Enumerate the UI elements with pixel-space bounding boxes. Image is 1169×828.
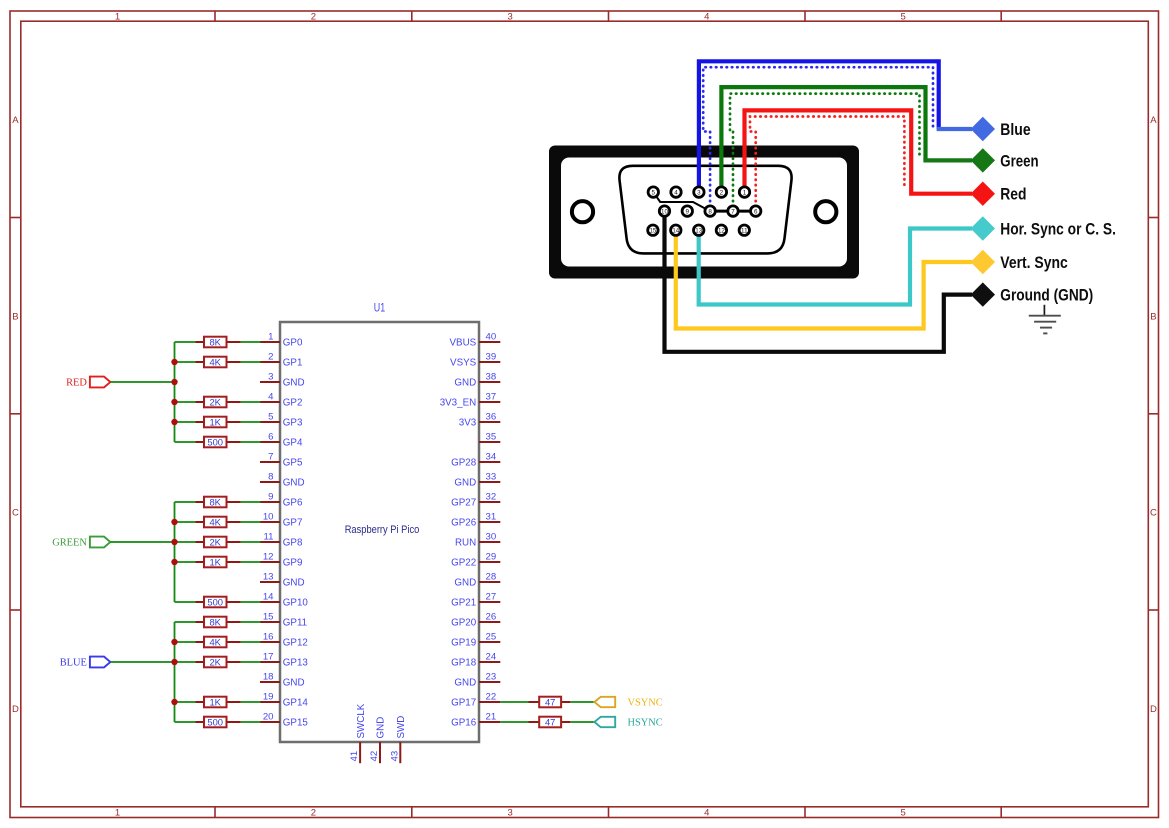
wire resistor to U1	[241, 601, 261, 603]
svg-text:GP26: GP26	[451, 518, 477, 529]
svg-text:8: 8	[268, 472, 273, 483]
svg-text:A: A	[12, 115, 19, 126]
resistor 500 RED	[196, 436, 241, 447]
svg-text:GP20: GP20	[451, 618, 477, 629]
VGA pin 7	[728, 206, 738, 216]
U1 pin 27 (GP21)	[451, 592, 500, 609]
svg-text:500: 500	[207, 596, 223, 607]
resistor 8K BLUE	[196, 616, 241, 627]
VGA pin 2	[716, 187, 726, 197]
svg-text:5: 5	[652, 189, 656, 196]
wire resistor to U1	[241, 721, 261, 723]
VGA pin 11	[739, 225, 749, 235]
resistor 47 (VSYNC)	[529, 696, 571, 707]
Green flag	[971, 148, 1039, 172]
VGA pin 12	[716, 225, 726, 235]
U1 pin 22 (GP17)	[451, 692, 500, 709]
svg-text:13: 13	[263, 572, 274, 583]
svg-text:GP5: GP5	[283, 458, 303, 469]
svg-text:4K: 4K	[209, 516, 221, 527]
svg-text:14: 14	[263, 592, 274, 603]
svg-text:GP6: GP6	[283, 498, 303, 509]
svg-text:2: 2	[720, 189, 724, 196]
wire bus to resistor	[175, 661, 196, 663]
svg-text:C: C	[1150, 508, 1157, 519]
svg-text:2: 2	[311, 807, 316, 818]
wire GREEN bus	[174, 502, 176, 602]
svg-text:13: 13	[695, 227, 702, 234]
frame row letters right	[1150, 115, 1157, 715]
svg-text:GND: GND	[376, 717, 387, 739]
svg-text:10: 10	[263, 512, 274, 523]
svg-text:500: 500	[207, 436, 223, 447]
junction dot	[171, 559, 177, 565]
svg-text:4K: 4K	[209, 636, 221, 647]
svg-text:2: 2	[268, 352, 273, 363]
svg-text:GP7: GP7	[283, 518, 303, 529]
wire bus to resistor	[175, 341, 196, 343]
junction dot	[171, 699, 177, 705]
svg-text:HSYNC: HSYNC	[628, 718, 663, 729]
wire Blue (VGA pin 3 to Blue flag)	[699, 61, 939, 192]
svg-text:19: 19	[263, 692, 274, 703]
VGA pin 9	[682, 206, 692, 216]
ground link wire pins 5-8-7-6	[653, 192, 755, 211]
resistor 8K RED	[196, 336, 241, 347]
earth ground symbol	[1029, 305, 1061, 334]
svg-text:26: 26	[486, 612, 497, 623]
wire 47 resistor to port VSYNC	[570, 701, 594, 703]
svg-text:RED: RED	[66, 378, 87, 389]
wire resistor to U1	[241, 521, 261, 523]
Ground flag	[971, 282, 1094, 306]
svg-text:Vert. Sync: Vert. Sync	[1000, 253, 1068, 272]
svg-text:9: 9	[268, 492, 273, 503]
port VSYNC	[594, 697, 662, 709]
wire resistor to U1	[241, 501, 261, 503]
frame column numbers bottom	[115, 807, 906, 818]
svg-text:22: 22	[486, 692, 497, 703]
U1 pin 4 (GP2)	[260, 392, 302, 409]
svg-text:1K: 1K	[209, 416, 221, 427]
svg-text:5: 5	[900, 807, 905, 818]
resistor 1K RED	[196, 416, 241, 427]
svg-text:33: 33	[486, 472, 497, 483]
svg-text:8K: 8K	[209, 336, 221, 347]
VGA pin 3	[694, 187, 704, 197]
resistor 500 BLUE	[196, 716, 241, 727]
svg-text:8K: 8K	[209, 616, 221, 627]
U1 pin 34 (GP28)	[451, 452, 500, 469]
wire bus to resistor	[175, 361, 196, 363]
svg-text:14: 14	[672, 227, 679, 234]
svg-text:18: 18	[263, 672, 274, 683]
svg-text:3: 3	[508, 12, 513, 23]
svg-text:GND: GND	[454, 678, 476, 689]
U1 pin 38 (GND)	[454, 372, 500, 389]
svg-text:1: 1	[115, 807, 120, 818]
U1 pin 11 (GP8)	[260, 532, 303, 549]
resistor 2K BLUE	[196, 656, 241, 667]
VGA pin 5	[648, 187, 658, 197]
svg-text:36: 36	[486, 412, 497, 423]
port GREEN	[52, 537, 110, 549]
svg-text:GP9: GP9	[283, 558, 303, 569]
VGA pin 6	[751, 206, 761, 216]
U1 pin 37 (3V3_EN)	[440, 392, 501, 409]
resistor 500 GREEN	[196, 596, 241, 607]
svg-text:GP2: GP2	[283, 398, 303, 409]
U1 pin 26 (GP20)	[451, 612, 500, 629]
resistor 1K BLUE	[196, 696, 241, 707]
U1 pin 28 (GND)	[454, 572, 500, 589]
junction dot	[171, 379, 177, 385]
svg-text:34: 34	[486, 452, 497, 463]
wire port GREEN to bus	[110, 541, 174, 543]
svg-text:35: 35	[486, 432, 497, 443]
U1 pin 23 (GND)	[454, 672, 500, 689]
dotted wire Green return (VGA pin 7)	[730, 94, 920, 207]
wire bus to resistor	[175, 441, 196, 443]
junction dot	[171, 419, 177, 425]
U1 pin 41 (SWCLK)	[349, 703, 367, 763]
VGA pin 13	[694, 225, 704, 235]
wire resistor to U1	[241, 621, 261, 623]
wire resistor to U1	[241, 641, 261, 643]
U1 pin 8 (GND)	[260, 472, 305, 489]
resistor 1K GREEN	[196, 556, 241, 567]
wire resistor to U1	[241, 541, 261, 543]
wire bus to resistor	[175, 501, 196, 503]
U1 pin 24 (GP18)	[451, 652, 500, 669]
svg-text:Hor. Sync or C. S.: Hor. Sync or C. S.	[1000, 219, 1116, 238]
svg-text:B: B	[12, 311, 18, 322]
svg-text:47: 47	[545, 696, 555, 707]
resistor 2K GREEN	[196, 536, 241, 547]
svg-text:3: 3	[268, 372, 273, 383]
wire Vert Sync (VGA pin 14 to flag)	[676, 230, 972, 328]
svg-text:4: 4	[674, 189, 678, 196]
svg-text:BLUE: BLUE	[60, 658, 87, 669]
U1 pin 6 (GP4)	[260, 432, 303, 449]
svg-text:1K: 1K	[209, 556, 221, 567]
svg-text:15: 15	[649, 227, 656, 234]
wire bus to resistor	[175, 401, 196, 403]
svg-text:12: 12	[263, 552, 274, 563]
svg-text:Blue: Blue	[1000, 120, 1030, 139]
VGA pin 1	[739, 187, 749, 197]
svg-text:23: 23	[486, 672, 497, 683]
svg-text:20: 20	[263, 712, 274, 723]
wire Green (VGA pin 2 to Green flag)	[721, 87, 925, 192]
U1 pin 42 (GND)	[369, 717, 387, 763]
svg-text:C: C	[12, 508, 19, 519]
VGA pin 4	[671, 187, 681, 197]
svg-text:2: 2	[311, 12, 316, 23]
wire resistor to U1	[241, 421, 261, 423]
U1 pin 16 (GP12)	[260, 632, 308, 649]
wire RED bus	[174, 342, 176, 442]
svg-text:16: 16	[263, 632, 274, 643]
svg-text:25: 25	[486, 632, 497, 643]
svg-text:GP28: GP28	[451, 458, 477, 469]
svg-text:27: 27	[486, 592, 497, 603]
op U1 Raspberry Pi Pico IC body	[280, 322, 479, 742]
VGA pin 14	[671, 225, 681, 235]
Red flag	[971, 182, 1027, 206]
U1 pin 21 (GP16)	[451, 712, 500, 729]
resistor 4K RED	[196, 356, 241, 367]
U1 pin 18 (GND)	[260, 672, 305, 689]
wire resistor to U1	[241, 361, 261, 363]
svg-text:1K: 1K	[209, 696, 221, 707]
svg-text:GP11: GP11	[283, 618, 307, 629]
U1 pin 10 (GP7)	[260, 512, 302, 529]
svg-text:21: 21	[486, 712, 497, 723]
U1 pin 25 (GP19)	[451, 632, 500, 649]
svg-text:2K: 2K	[209, 656, 221, 667]
svg-text:37: 37	[486, 392, 497, 403]
svg-text:5: 5	[900, 12, 905, 23]
svg-text:11: 11	[264, 532, 274, 543]
svg-text:1: 1	[268, 332, 273, 343]
U1 pin 30 (RUN)	[455, 532, 500, 549]
U1 pin 14 (GP10)	[260, 592, 308, 609]
resistor 4K BLUE	[196, 636, 241, 647]
U1 pin 29 (GP22)	[451, 552, 500, 569]
U1 pin 39 (VSYS)	[450, 352, 500, 369]
svg-text:VSYS: VSYS	[450, 358, 477, 369]
U1 pin 13 (GND)	[260, 572, 305, 589]
svg-text:GP19: GP19	[451, 638, 476, 649]
svg-text:39: 39	[486, 352, 497, 363]
wire resistor to U1	[241, 701, 261, 703]
svg-text:VBUS: VBUS	[450, 338, 477, 349]
svg-text:U1: U1	[374, 300, 385, 314]
svg-text:Raspberry Pi Pico: Raspberry Pi Pico	[345, 524, 420, 536]
svg-text:GND: GND	[454, 378, 476, 389]
port HSYNC	[594, 717, 662, 729]
junction dot	[171, 659, 177, 665]
U1 pin 7 (GP5)	[260, 452, 303, 469]
svg-text:GND: GND	[454, 478, 476, 489]
svg-text:40: 40	[486, 332, 497, 343]
svg-text:Ground (GND): Ground (GND)	[1000, 286, 1093, 305]
dotted wire Blue return (VGA pin 8)	[703, 67, 933, 206]
U1 pin 15 (GP11)	[260, 612, 307, 629]
svg-text:4: 4	[704, 807, 709, 818]
svg-text:GP15: GP15	[283, 718, 309, 729]
svg-text:GP8: GP8	[283, 538, 303, 549]
svg-text:7: 7	[268, 452, 273, 463]
svg-text:11: 11	[741, 227, 748, 234]
U1 pin 2 (GP1)	[260, 352, 302, 369]
svg-text:6: 6	[754, 208, 758, 215]
VGA connector D-face outline	[619, 166, 791, 254]
svg-text:28: 28	[486, 572, 497, 583]
svg-text:GP17: GP17	[451, 698, 476, 709]
VGA pin 15	[648, 225, 658, 235]
svg-text:3V3_EN: 3V3_EN	[440, 398, 477, 409]
svg-text:GP22: GP22	[451, 558, 476, 569]
U1 pin 20 (GP15)	[260, 712, 308, 729]
resistor 4K GREEN	[196, 516, 241, 527]
wire Red (VGA pin 1 to Red flag)	[745, 110, 973, 193]
svg-text:GND: GND	[283, 578, 305, 589]
U1 pin 9 (GP6)	[260, 492, 303, 509]
svg-text:GND: GND	[454, 578, 476, 589]
wire BLUE bus	[174, 622, 176, 722]
U1 pin 1 (GP0)	[260, 332, 303, 349]
frame column numbers top	[115, 12, 906, 23]
svg-text:D: D	[12, 704, 19, 715]
VGA pin 8	[705, 206, 715, 216]
junction dot	[171, 639, 177, 645]
junction dot	[171, 359, 177, 365]
resistor 47 (HSYNC)	[529, 716, 571, 727]
svg-text:6: 6	[268, 432, 273, 443]
wire resistor to U1	[241, 401, 261, 403]
svg-text:GP0: GP0	[283, 338, 303, 349]
svg-text:30: 30	[486, 532, 497, 543]
wire bus to resistor	[175, 561, 196, 563]
svg-text:GP14: GP14	[283, 698, 309, 709]
svg-text:10: 10	[661, 208, 668, 215]
svg-text:9: 9	[686, 208, 690, 215]
wire Hor Sync (VGA pin 13 to flag)	[699, 229, 972, 305]
svg-text:GP12: GP12	[283, 638, 308, 649]
svg-text:17: 17	[263, 652, 274, 663]
wire Ground (VGA pin 10 to flag)	[665, 211, 973, 352]
U1 pin 17 (GP13)	[260, 652, 308, 669]
wire bus to resistor	[175, 521, 196, 523]
svg-text:GP13: GP13	[283, 658, 309, 669]
U1 pin 12 (GP9)	[260, 552, 302, 569]
U1 pin 5 (GP3)	[260, 412, 303, 429]
svg-text:GP10: GP10	[283, 598, 309, 609]
resistor 8K GREEN	[196, 496, 241, 507]
svg-text:A: A	[1150, 115, 1157, 126]
wire port RED to bus	[110, 381, 174, 383]
wire resistor to U1	[241, 661, 261, 663]
junction dot	[171, 519, 177, 525]
svg-text:SWCLK: SWCLK	[356, 703, 367, 738]
VGA pin 10	[659, 206, 669, 216]
svg-text:GREEN: GREEN	[52, 538, 87, 549]
svg-text:GP3: GP3	[283, 418, 303, 429]
svg-text:Red: Red	[1000, 185, 1026, 204]
U1 pin 43 (SWD)	[389, 716, 407, 764]
svg-text:GP27: GP27	[451, 498, 476, 509]
svg-text:GP4: GP4	[283, 438, 303, 449]
svg-text:500: 500	[207, 716, 223, 727]
svg-text:8: 8	[708, 208, 712, 215]
frame row letters left	[12, 115, 19, 715]
svg-text:1: 1	[743, 189, 747, 196]
wire bus to resistor	[175, 541, 196, 543]
svg-text:24: 24	[486, 652, 497, 663]
svg-text:RUN: RUN	[455, 538, 476, 549]
svg-text:31: 31	[486, 512, 497, 523]
svg-text:GND: GND	[283, 478, 305, 489]
wire port BLUE to bus	[110, 661, 174, 663]
svg-text:47: 47	[545, 716, 555, 727]
svg-text:VSYNC: VSYNC	[628, 698, 663, 709]
port BLUE	[60, 657, 111, 669]
svg-text:3: 3	[508, 807, 513, 818]
U1 pin 3 (GND)	[260, 372, 305, 389]
svg-text:GP18: GP18	[451, 658, 477, 669]
Hor Sync flag	[971, 216, 1116, 240]
wire resistor to U1	[241, 561, 261, 563]
wire bus to resistor	[175, 421, 196, 423]
wire bus to resistor	[175, 641, 196, 643]
U1 pin 33 (GND)	[454, 472, 500, 489]
U1 pin 19 (GP14)	[260, 692, 308, 709]
resistor 2K RED	[196, 396, 241, 407]
svg-text:7: 7	[731, 208, 735, 215]
U1 pin 35 (NC)	[479, 432, 500, 443]
svg-text:15: 15	[263, 612, 274, 623]
wire bus to resistor	[175, 621, 196, 623]
svg-text:GP21: GP21	[451, 598, 476, 609]
svg-text:12: 12	[718, 227, 725, 234]
svg-text:41: 41	[349, 751, 360, 762]
svg-text:38: 38	[486, 372, 497, 383]
wire 47 resistor to port HSYNC	[570, 721, 594, 723]
svg-text:D: D	[1150, 704, 1157, 715]
svg-text:4: 4	[268, 392, 274, 403]
wire bus to resistor	[175, 721, 196, 723]
svg-text:4K: 4K	[209, 356, 221, 367]
svg-text:2K: 2K	[209, 536, 221, 547]
svg-text:GP16: GP16	[451, 718, 477, 729]
svg-text:42: 42	[369, 751, 380, 762]
junction dot	[171, 399, 177, 405]
svg-text:GP1: GP1	[283, 358, 303, 369]
U1 pin 36 (3V3)	[459, 412, 501, 429]
svg-text:B: B	[1150, 311, 1156, 322]
svg-text:SWD: SWD	[396, 716, 407, 739]
svg-text:4: 4	[704, 12, 709, 23]
wire U1 to 47 resistor (HSYNC)	[500, 721, 528, 723]
svg-text:2K: 2K	[209, 396, 221, 407]
U1 pin 32 (GP27)	[451, 492, 500, 509]
wire resistor to U1	[241, 341, 261, 343]
wire resistor to U1	[241, 441, 261, 443]
wire bus to resistor	[175, 601, 196, 603]
U1 pin 40 (VBUS)	[450, 332, 501, 349]
svg-text:43: 43	[389, 751, 400, 762]
wire U1 to 47 resistor (VSYNC)	[500, 701, 528, 703]
svg-text:Green: Green	[1000, 151, 1038, 170]
svg-text:32: 32	[486, 492, 497, 503]
wire bus to resistor	[175, 701, 196, 703]
svg-text:8K: 8K	[209, 496, 221, 507]
svg-text:GND: GND	[283, 378, 305, 389]
junction dot	[171, 539, 177, 545]
VGA DE-15 connector shell	[549, 146, 859, 279]
dotted wire Red return (VGA pin 6)	[750, 117, 904, 207]
svg-text:29: 29	[486, 552, 497, 563]
port RED	[66, 377, 110, 389]
svg-text:3V3: 3V3	[459, 418, 477, 429]
VGA mounting hole left	[572, 201, 593, 222]
Blue flag	[971, 117, 1031, 141]
Vert Sync flag	[971, 250, 1068, 274]
svg-text:GND: GND	[283, 678, 305, 689]
U1 pin 31 (GP26)	[451, 512, 500, 529]
